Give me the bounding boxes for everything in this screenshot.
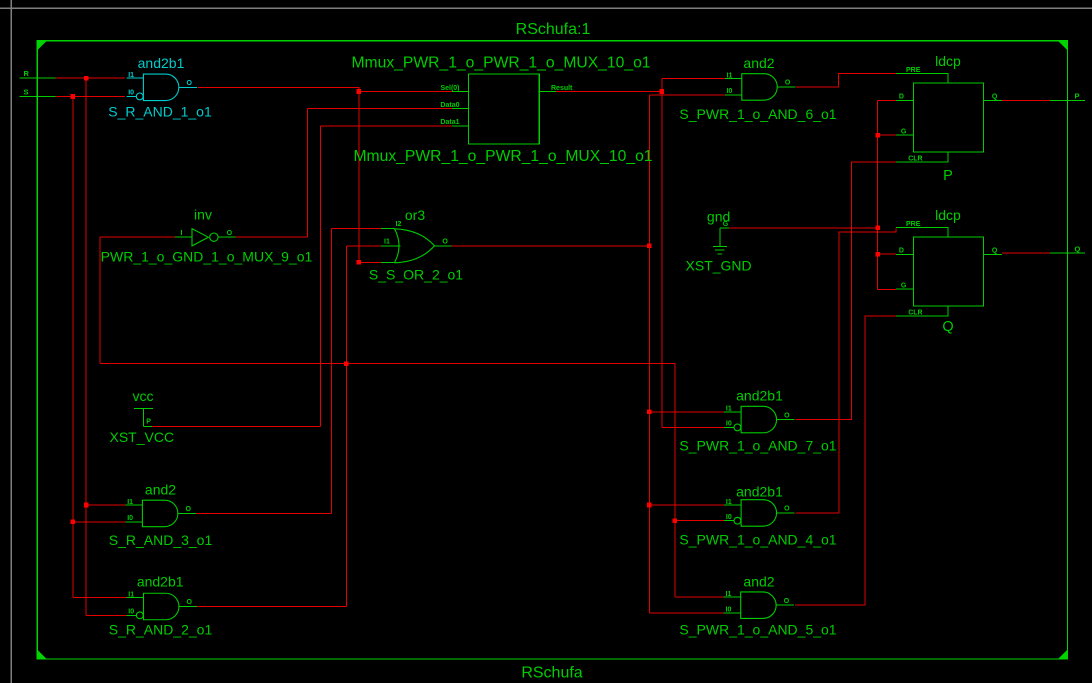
svg-text:S_PWR_1_o_AND_5_o1: S_PWR_1_o_AND_5_o1 — [679, 621, 836, 637]
svg-text:PRE: PRE — [906, 67, 921, 74]
svg-text:S: S — [24, 87, 29, 96]
svg-text:and2b1: and2b1 — [138, 55, 185, 71]
svg-text:D: D — [899, 94, 904, 101]
svg-text:Result: Result — [551, 85, 573, 92]
svg-text:O: O — [784, 412, 790, 419]
svg-text:Q: Q — [992, 248, 998, 255]
svg-text:XST_VCC: XST_VCC — [110, 429, 175, 445]
svg-text:O: O — [185, 506, 191, 513]
svg-text:RSchufa: RSchufa — [521, 665, 582, 682]
svg-text:O: O — [784, 598, 790, 605]
svg-text:P: P — [146, 419, 151, 426]
svg-text:and2b1: and2b1 — [736, 388, 783, 404]
svg-text:I1: I1 — [384, 238, 390, 245]
svg-text:Q: Q — [992, 94, 998, 101]
svg-text:G: G — [901, 129, 907, 136]
svg-text:O: O — [785, 80, 791, 87]
svg-text:G: G — [901, 283, 907, 290]
svg-text:I2: I2 — [396, 221, 402, 228]
svg-text:ldcp: ldcp — [935, 53, 961, 69]
svg-text:and2: and2 — [743, 55, 774, 71]
svg-text:Data0: Data0 — [440, 102, 459, 109]
svg-text:S_R_AND_2_o1: S_R_AND_2_o1 — [109, 622, 213, 638]
svg-text:Sel(0): Sel(0) — [440, 85, 459, 92]
svg-text:Mmux_PWR_1_o_PWR_1_o_MUX_10_o1: Mmux_PWR_1_o_PWR_1_o_MUX_10_o1 — [353, 148, 652, 165]
svg-text:P: P — [943, 168, 953, 184]
svg-text:D: D — [899, 248, 904, 255]
svg-text:PWR_1_o_GND_1_o_MUX_9_o1: PWR_1_o_GND_1_o_MUX_9_o1 — [101, 249, 313, 265]
svg-text:Q: Q — [942, 319, 953, 335]
svg-text:I1: I1 — [127, 499, 133, 506]
svg-text:I1: I1 — [128, 72, 134, 79]
svg-text:and2: and2 — [145, 482, 176, 498]
svg-text:or3: or3 — [405, 207, 425, 223]
svg-text:R: R — [24, 69, 30, 78]
svg-text:I0: I0 — [726, 606, 732, 613]
svg-text:CLR: CLR — [908, 155, 922, 162]
svg-text:I0: I0 — [726, 421, 732, 428]
svg-text:S_R_AND_3_o1: S_R_AND_3_o1 — [109, 532, 213, 548]
svg-text:O: O — [186, 80, 192, 87]
svg-text:gnd: gnd — [707, 208, 730, 224]
svg-text:PRE: PRE — [906, 221, 921, 228]
svg-text:S_PWR_1_o_AND_6_o1: S_PWR_1_o_AND_6_o1 — [679, 106, 836, 122]
svg-text:I0: I0 — [127, 515, 133, 522]
svg-text:I: I — [181, 230, 183, 237]
svg-text:I0: I0 — [727, 88, 733, 95]
svg-text:Q: Q — [1075, 244, 1081, 253]
svg-text:Mmux_PWR_1_o_PWR_1_o_MUX_10_o1: Mmux_PWR_1_o_PWR_1_o_MUX_10_o1 — [351, 54, 650, 71]
svg-text:and2b1: and2b1 — [137, 574, 184, 590]
svg-text:O: O — [784, 506, 790, 513]
svg-text:ldcp: ldcp — [935, 207, 961, 223]
svg-text:O: O — [227, 230, 233, 237]
svg-text:I1: I1 — [726, 499, 732, 506]
svg-text:inv: inv — [194, 207, 212, 223]
svg-text:I1: I1 — [727, 72, 733, 79]
svg-text:RSchufa:1: RSchufa:1 — [516, 21, 591, 38]
svg-text:and2: and2 — [743, 573, 774, 589]
svg-text:vcc: vcc — [133, 388, 154, 404]
svg-text:S_PWR_1_o_AND_4_o1: S_PWR_1_o_AND_4_o1 — [679, 531, 836, 547]
svg-text:I0: I0 — [726, 514, 732, 521]
svg-text:S_R_AND_1_o1: S_R_AND_1_o1 — [108, 104, 212, 120]
svg-text:XST_GND: XST_GND — [686, 257, 752, 273]
svg-text:CLR: CLR — [908, 309, 922, 316]
svg-text:S_S_OR_2_o1: S_S_OR_2_o1 — [369, 267, 463, 283]
svg-text:and2b1: and2b1 — [736, 483, 783, 499]
svg-text:I1: I1 — [128, 591, 134, 598]
svg-text:I0: I0 — [128, 90, 134, 97]
svg-text:O: O — [187, 599, 193, 606]
svg-text:I1: I1 — [726, 591, 732, 598]
svg-text:Data1: Data1 — [440, 119, 459, 126]
svg-text:I0: I0 — [128, 608, 134, 615]
svg-text:P: P — [1075, 92, 1080, 101]
svg-text:O: O — [442, 238, 448, 245]
svg-text:S_PWR_1_o_AND_7_o1: S_PWR_1_o_AND_7_o1 — [679, 438, 836, 454]
svg-text:I1: I1 — [726, 406, 732, 413]
